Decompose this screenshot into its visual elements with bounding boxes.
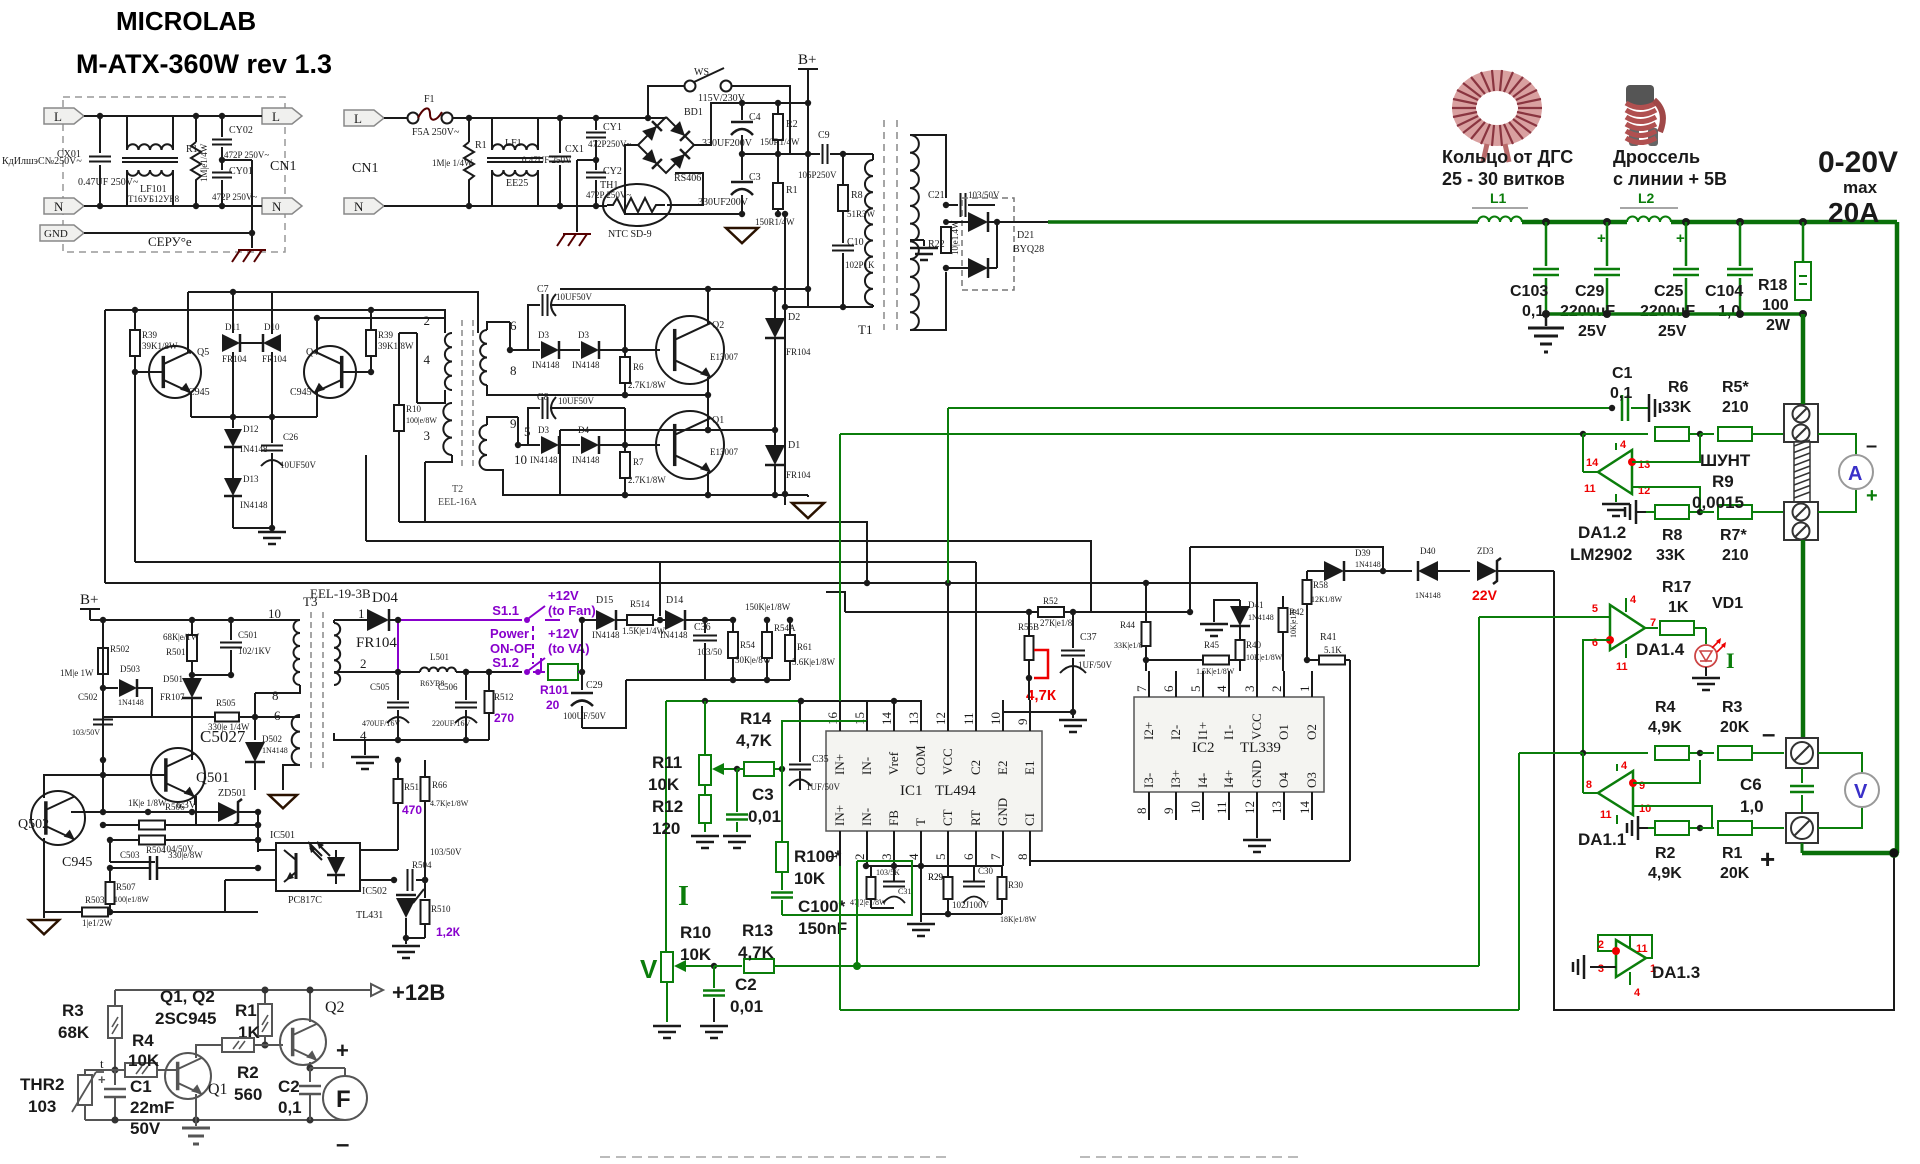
svg-text:M-ATX-360W rev 1.3: M-ATX-360W rev 1.3 [76, 49, 332, 79]
capacitor CY1 [595, 118, 597, 130]
resistor R12 120 [699, 795, 711, 823]
svg-text:560: 560 [234, 1085, 262, 1104]
green x840 vertical lower half [839, 866, 841, 1010]
capacitor C8 10UF50V [528, 408, 540, 445]
IC2 pin 10 (I4-) [1202, 792, 1204, 820]
diode D501 FR107 [191, 675, 193, 678]
svg-text:10: 10 [988, 712, 1003, 725]
svg-text:CX1: CX1 [565, 144, 584, 155]
svg-text:7: 7 [988, 853, 1003, 860]
svg-text:Q2: Q2 [325, 999, 345, 1016]
svg-text:6: 6 [274, 708, 281, 723]
svg-text:10К|е1/8: 10К|е1/8 [1289, 609, 1298, 638]
IC2 pin 12 (GND) [1256, 792, 1258, 820]
transistor Q5 C945 [149, 346, 201, 398]
thermistor TH1 NTC SD-9 [603, 184, 671, 226]
svg-text:IN+: IN+ [832, 754, 847, 775]
capacitor C103 0,1 [1545, 222, 1548, 266]
svg-text:4,9K: 4,9K [1648, 865, 1682, 882]
svg-text:BYQ28: BYQ28 [1013, 244, 1044, 255]
wire IC2 top rail (y547) [1190, 547, 1383, 571]
svg-text:1.5К|е1/8W: 1.5К|е1/8W [1196, 667, 1235, 676]
resistor R7 2.7K1/8W [624, 445, 626, 452]
svg-text:9: 9 [1015, 719, 1030, 726]
+12B feed arrow [115, 989, 370, 991]
connector N stage2 [344, 198, 384, 214]
svg-text:4: 4 [1214, 685, 1229, 692]
svg-text:FR107: FR107 [160, 692, 185, 702]
svg-text:V: V [640, 954, 658, 984]
svg-text:4: 4 [906, 853, 921, 860]
svg-text:11: 11 [1584, 483, 1596, 495]
svg-text:R41: R41 [1320, 632, 1337, 643]
IC1 pin 14 (Vref) [893, 700, 895, 731]
IC2 pin 1 (O2) [1311, 671, 1313, 697]
diode D12 IN4148 [232, 417, 234, 428]
ammeter loop [1818, 434, 1856, 456]
opamp DA1.4 [1610, 605, 1645, 650]
svg-text:S1.1: S1.1 [492, 603, 519, 618]
svg-text:t: t [100, 1056, 104, 1071]
IC1 pin 12 (VCC) [947, 700, 949, 731]
svg-text:CY2: CY2 [603, 166, 622, 177]
svg-text:I: I [678, 881, 689, 912]
IC2 TL339 body [1134, 697, 1324, 792]
svg-text:14: 14 [1297, 801, 1312, 815]
svg-text:C100*: C100* [798, 897, 846, 916]
winding 8 to 6 [255, 685, 300, 693]
resistor R18 100 2W [1802, 222, 1805, 262]
svg-text:Дроссель: Дроссель [1613, 147, 1700, 167]
green riser x1519 [1518, 753, 1520, 1010]
resistor R17 1K [1645, 627, 1658, 629]
svg-text:+12В: +12В [392, 980, 445, 1005]
svg-text:3: 3 [1242, 686, 1257, 693]
svg-text:68К|е/1W: 68К|е/1W [163, 632, 200, 642]
svg-text:1UF/50V: 1UF/50V [1078, 660, 1113, 670]
svg-text:D503: D503 [120, 664, 140, 674]
svg-text:12К1/8W: 12К1/8W [1311, 595, 1343, 604]
IC2 pin 3 (VCC) [1256, 671, 1258, 697]
svg-text:C506: C506 [438, 682, 458, 692]
wire Vref-COM tie [800, 700, 921, 702]
svg-text:20A: 20A [1828, 197, 1879, 228]
Q5 emitter wire [190, 392, 192, 417]
svg-text:GND: GND [1249, 760, 1264, 788]
resistor R39 left 39K1/8W [134, 310, 136, 330]
diode D11 FR104 [232, 292, 234, 333]
svg-text:R506: R506 [165, 802, 185, 812]
svg-text:0,1: 0,1 [1522, 303, 1544, 320]
wire L rail [84, 115, 262, 117]
transistor Q1 E13007 [656, 411, 724, 479]
svg-text:E13007: E13007 [710, 352, 738, 362]
T2 core dashed [461, 320, 463, 470]
svg-text:102J100V: 102J100V [952, 900, 990, 910]
svg-text:R8: R8 [851, 190, 863, 201]
transistor Q4 C945 [304, 346, 356, 398]
svg-text:C945: C945 [290, 387, 312, 398]
capacitor C9 105P250V [818, 153, 820, 155]
svg-text:C3: C3 [749, 172, 761, 183]
svg-text:2: 2 [852, 854, 867, 861]
svg-text:14: 14 [1586, 457, 1599, 469]
svg-text:D12: D12 [243, 424, 259, 434]
svg-text:I1-: I1- [1221, 725, 1236, 740]
svg-text:C29: C29 [586, 680, 603, 691]
svg-text:V: V [1854, 781, 1868, 803]
capacitor CX01 [99, 116, 101, 153]
Q5 collector wire [187, 292, 189, 352]
svg-text:22mF: 22mF [130, 1098, 174, 1117]
voltmeter loop [1818, 753, 1862, 773]
svg-text:D3: D3 [538, 330, 549, 340]
svg-text:C5027: C5027 [200, 727, 246, 746]
svg-text:CT: CT [940, 809, 955, 826]
standby secondary gnd bus [365, 739, 489, 741]
inductor L2 [1627, 217, 1671, 223]
svg-text:E2: E2 [995, 761, 1010, 775]
zener ZD3 [1477, 561, 1497, 581]
svg-text:TH1: TH1 [600, 180, 618, 191]
resistor R1 stage2 [468, 118, 470, 142]
wire R10 column [398, 333, 400, 405]
down triangle standby [43, 912, 45, 918]
svg-text:5: 5 [1188, 686, 1203, 693]
svg-text:S1.2: S1.2 [492, 655, 519, 670]
svg-text:+: + [1866, 485, 1878, 507]
right edge vertical thick green [1895, 222, 1900, 853]
svg-text:R503: R503 [85, 895, 105, 905]
sideways gnd near R2 [1637, 816, 1640, 840]
secondary bottom 4 [334, 733, 365, 755]
IC2 pin 6 (I2-) [1175, 671, 1177, 697]
resistor R4fan 10K [114, 1062, 116, 1070]
svg-text:25V: 25V [1578, 323, 1607, 340]
svg-text:4.7К|е1/8W: 4.7К|е1/8W [430, 799, 469, 808]
transformer T1 secondary winding [910, 135, 919, 330]
toroid photo (Кольцо от ДГС) [1452, 70, 1542, 162]
svg-text:11: 11 [961, 712, 976, 725]
Q4 base wire [341, 371, 371, 373]
svg-text:IN4148: IN4148 [572, 360, 600, 370]
resistor R501 68K1W [191, 620, 193, 635]
svg-text:FR104: FR104 [786, 347, 811, 357]
svg-text:R18: R18 [1758, 277, 1787, 294]
green wire to DA1.4 pin5 [1479, 616, 1610, 618]
wire switch to midpoint rail [732, 86, 790, 154]
svg-text:50V: 50V [130, 1119, 161, 1138]
resistor R513 470 [397, 760, 399, 780]
svg-text:RT: RT [968, 810, 983, 826]
feed from drive rail [659, 562, 661, 616]
B+ rail to T3 [90, 619, 300, 621]
resistor R1 20K [1697, 825, 1703, 831]
common-mode choke LF101 [126, 116, 128, 150]
svg-text:L2: L2 [1638, 190, 1655, 206]
svg-text:R58: R58 [1313, 580, 1329, 590]
resistor R54 30K/8W [732, 620, 734, 632]
svg-text:D04: D04 [372, 590, 398, 606]
svg-text:I1+: I1+ [1195, 722, 1210, 740]
Q1 emitter [707, 472, 709, 495]
IC1 pin 9 (E1) [1029, 700, 1031, 731]
connector L (right) [262, 108, 302, 124]
capacitor CY2 [586, 172, 606, 174]
svg-text:1М|е1/4W: 1М|е1/4W [199, 143, 209, 182]
svg-text:CI: CI [1022, 813, 1037, 826]
svg-text:2W: 2W [1766, 317, 1791, 334]
wire bridge + output [694, 103, 808, 145]
capacitor C503 104/50V [109, 840, 111, 862]
svg-text:THR2: THR2 [20, 1075, 64, 1094]
svg-text:IN-: IN- [859, 808, 874, 826]
svg-text:+: + [98, 1072, 106, 1087]
svg-text:LF1: LF1 [505, 138, 522, 149]
svg-text:I3+: I3+ [1168, 770, 1183, 788]
svg-text:R502: R502 [110, 644, 130, 654]
svg-text:2: 2 [424, 313, 431, 328]
IC1 pin 8 (CI) [1029, 831, 1031, 866]
svg-text:EE25: EE25 [506, 178, 528, 189]
diode D3a IN4148 [528, 349, 540, 351]
svg-text:Q5: Q5 [197, 347, 209, 358]
resistor R1 (bleeder) [195, 116, 197, 142]
svg-text:D39: D39 [1355, 548, 1371, 558]
T3 primary winding 10-8 [294, 620, 301, 685]
comparator input row y660 [1145, 660, 1147, 671]
svg-text:C3: C3 [752, 785, 774, 804]
TL431 body wiring [413, 889, 424, 903]
svg-text:1N4148: 1N4148 [1415, 591, 1441, 600]
red mod bracket 4,7K [1034, 650, 1048, 678]
svg-text:C29: C29 [1575, 283, 1604, 300]
svg-text:13: 13 [1269, 801, 1284, 814]
svg-text:R6: R6 [1668, 379, 1689, 396]
svg-text:R44: R44 [1120, 620, 1136, 630]
capacitor C3 0,01 [736, 769, 738, 812]
svg-text:D4: D4 [578, 425, 589, 435]
T3 winding 6-? [292, 715, 300, 765]
terminal block lower [1784, 502, 1818, 540]
shunt resistor R9 hatched [1794, 442, 1810, 502]
resistor R101 20 (green body, purple leads) [548, 664, 578, 680]
svg-text:T1: T1 [858, 322, 872, 337]
svg-text:R13: R13 [742, 921, 773, 940]
svg-text:11: 11 [1616, 661, 1628, 673]
svg-text:3: 3 [1598, 963, 1604, 975]
svg-text:TL339: TL339 [1240, 740, 1281, 756]
svg-text:8: 8 [1586, 779, 1592, 791]
svg-text:R4: R4 [1655, 699, 1676, 716]
opto connections [258, 849, 276, 851]
svg-text:0,01: 0,01 [730, 997, 763, 1016]
vertical from winding block left [365, 460, 367, 541]
IC1 pin 10 (E2) [1002, 700, 1004, 731]
wire primary bottom to half-bridge [785, 306, 843, 308]
svg-text:C2: C2 [968, 760, 983, 775]
svg-text:O3: O3 [1304, 772, 1319, 788]
svg-text:102/1КV: 102/1КV [238, 646, 272, 656]
capacitor R504 (comp) [391, 877, 397, 883]
svg-text:33К|е1/8: 33К|е1/8 [1114, 641, 1143, 650]
svg-text:472P 250V~: 472P 250V~ [212, 192, 257, 202]
wire B+ standby feed (y583) [105, 583, 1257, 671]
capacitor C1fan 22mF 50V [114, 1070, 116, 1085]
T2 winding 9-10 [480, 425, 488, 470]
svg-text:R12: R12 [652, 797, 683, 816]
diode D15 IN4148 [596, 610, 616, 630]
resistor R4 4,9K [1655, 746, 1689, 760]
svg-text:L1: L1 [1490, 190, 1507, 206]
svg-text:C1: C1 [1612, 365, 1633, 382]
svg-text:103: 103 [28, 1097, 56, 1116]
svg-text:F1: F1 [424, 94, 435, 105]
svg-text:C37: C37 [1080, 632, 1097, 643]
svg-text:0-20V: 0-20V [1818, 146, 1898, 179]
svg-text:LM2902: LM2902 [1570, 545, 1632, 564]
svg-text:4,7К: 4,7К [1026, 687, 1057, 704]
svg-text:20: 20 [546, 698, 560, 712]
svg-text:4: 4 [1620, 439, 1627, 451]
opamp DA1.3 [1616, 940, 1646, 977]
emitter Q501 junction [194, 797, 196, 805]
wire N rail [84, 205, 262, 207]
svg-text:D21: D21 [1017, 230, 1034, 241]
chassis ground (protective earth) [238, 249, 266, 251]
wire +12V VA drop [540, 658, 542, 672]
svg-text:10UF50V: 10UF50V [556, 292, 593, 302]
svg-text:D3: D3 [538, 425, 549, 435]
Q4 emitter wire [316, 392, 318, 417]
resistor R510 1,2K [424, 880, 426, 898]
IC1 pin 13 (COM) [920, 700, 922, 731]
svg-text:T2: T2 [452, 484, 463, 495]
svg-text:10K: 10K [128, 1051, 160, 1070]
svg-text:103/50V: 103/50V [72, 728, 100, 737]
svg-text:10K: 10K [648, 775, 680, 794]
capacitor C29 100UF/50V [581, 620, 583, 690]
svg-text:R6: R6 [633, 362, 644, 372]
svg-text:L: L [272, 109, 280, 124]
svg-text:+: + [336, 1038, 349, 1063]
resistor R503 1/1.2W [82, 908, 108, 917]
pin9 E1 wire [1028, 660, 1030, 700]
emitter return rail [560, 494, 808, 496]
svg-text:C103: C103 [1510, 283, 1548, 300]
E1/C37 bottom tie [1003, 711, 1073, 713]
svg-text:10K: 10K [794, 869, 826, 888]
svg-text:0,1: 0,1 [278, 1098, 302, 1117]
svg-text:I2+: I2+ [1141, 722, 1156, 740]
svg-text:20K: 20K [1720, 865, 1750, 882]
resistor R1fan 1K [264, 990, 266, 1004]
svg-text:100: 100 [1762, 297, 1789, 314]
svg-text:I2-: I2- [1168, 725, 1183, 740]
svg-text:R100*: R100* [794, 847, 842, 866]
green output bus from D21 [997, 221, 1048, 223]
svg-text:104/50V: 104/50V [162, 844, 194, 854]
svg-text:COM: COM [913, 745, 928, 775]
svg-text:O4: O4 [1276, 772, 1291, 788]
Q501 collector [191, 753, 193, 760]
svg-text:ШУНТ: ШУНТ [1700, 451, 1751, 470]
diode D1 FR104 [774, 413, 776, 430]
svg-text:Q1: Q1 [208, 1081, 228, 1098]
svg-text:R101: R101 [540, 683, 569, 697]
secondary tap 2 [334, 671, 398, 673]
svg-text:R11: R11 [652, 753, 682, 772]
svg-text:R1: R1 [1722, 845, 1743, 862]
svg-text:4: 4 [1634, 987, 1641, 999]
svg-text:16: 16 [825, 712, 840, 726]
terminal V+ [1786, 813, 1818, 843]
svg-text:1,2К: 1,2К [436, 925, 461, 939]
svg-text:5.1K: 5.1K [1324, 645, 1342, 655]
svg-text:IN4148: IN4148 [572, 455, 600, 465]
svg-text:10: 10 [514, 452, 527, 467]
svg-text:5: 5 [1592, 603, 1598, 615]
svg-text:R9: R9 [1712, 472, 1734, 491]
DA1.3 feedback loop [1598, 935, 1652, 958]
svg-text:103/50V: 103/50V [430, 847, 462, 857]
R505 row [215, 713, 239, 722]
svg-text:FR104: FR104 [262, 354, 287, 364]
resistor R504b 330/8W [139, 836, 165, 845]
svg-text:R507: R507 [116, 882, 136, 892]
wire +12V rail y620 [582, 619, 596, 621]
svg-text:18К|е1/8W: 18К|е1/8W [1000, 915, 1037, 924]
svg-text:1: 1 [358, 606, 365, 621]
svg-text:6: 6 [1592, 637, 1598, 649]
svg-text:100|е/8W: 100|е/8W [406, 416, 437, 425]
svg-text:FR104: FR104 [222, 354, 247, 364]
connector L (left) [44, 108, 84, 124]
svg-text:C26: C26 [283, 432, 299, 442]
diode D21 upper [946, 221, 968, 223]
svg-text:8: 8 [1134, 808, 1149, 815]
secondary center tap to ground [910, 239, 924, 241]
diode D502 IN4148 [254, 717, 256, 740]
green pin2 vertical to V bus [856, 861, 858, 966]
wire upper loop H2 [105, 310, 445, 333]
connector L stage2 [344, 110, 384, 126]
IC2 pin 11 (I4+) [1228, 792, 1230, 820]
svg-text:IC501: IC501 [270, 830, 295, 841]
capacitor C35 1UF/50V [799, 701, 801, 762]
bottom bus y866 [866, 865, 1002, 867]
svg-text:IN4148: IN4148 [530, 455, 558, 465]
top feed wires R513/R66 [424, 761, 426, 763]
primary return triangle ground [726, 228, 758, 243]
ZD3 black drop [1554, 571, 1894, 1010]
svg-text:R14: R14 [740, 709, 772, 728]
IC1 TL494 body [826, 731, 1042, 831]
svg-text:7: 7 [1134, 685, 1149, 692]
svg-text:2SC945: 2SC945 [155, 1009, 216, 1028]
svg-text:1N4148: 1N4148 [1355, 560, 1381, 569]
svg-text:R66: R66 [432, 780, 448, 790]
snubber C10 102P1K [842, 211, 844, 243]
transformer T2 winding 2-4 [445, 333, 452, 390]
opamp DA1.1 [1598, 771, 1633, 815]
resistor R514 1.5K1/4W [616, 619, 626, 621]
svg-text:E1: E1 [1022, 761, 1037, 775]
svg-text:Q1: Q1 [712, 415, 724, 426]
svg-text:1|е1/2W: 1|е1/2W [82, 918, 113, 928]
IC1 pin 11 (C2) [975, 700, 977, 731]
svg-text:C25: C25 [1654, 283, 1683, 300]
